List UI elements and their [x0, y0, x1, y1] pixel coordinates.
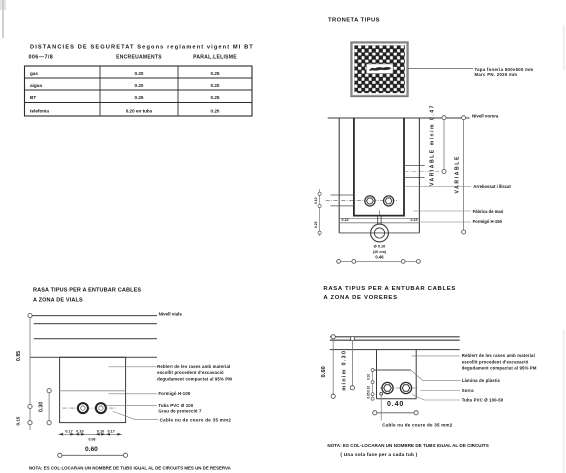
- svg-text:mínim 0.30: mínim 0.30: [342, 350, 348, 391]
- svg-text:ENCREUAMENTS: ENCREUAMENTS: [116, 55, 162, 61]
- svg-text:0.20: 0.20: [211, 83, 220, 88]
- svg-text:0.20: 0.20: [135, 71, 144, 76]
- svg-text:VARIABLE mínim 0.47: VARIABLE mínim 0.47: [430, 104, 436, 186]
- svg-text:Sorra: Sorra: [462, 388, 474, 393]
- svg-text:(10 cm): (10 cm): [373, 249, 387, 254]
- svg-text:Formigó H-150: Formigó H-150: [473, 219, 503, 224]
- svg-text:0.20: 0.20: [211, 108, 220, 113]
- svg-text:0.15: 0.15: [342, 218, 349, 222]
- svg-text:Cable nu de coure de 35 mm2: Cable nu de coure de 35 mm2: [382, 423, 453, 428]
- svg-text:0.40: 0.40: [387, 401, 404, 408]
- svg-text:006—7/8: 006—7/8: [29, 55, 54, 61]
- svg-text:Grau de protecció 7: Grau de protecció 7: [158, 408, 202, 413]
- svg-text:Nivell vorera: Nivell vorera: [472, 113, 499, 118]
- svg-text:0.15: 0.15: [16, 416, 21, 425]
- svg-text:0.25: 0.25: [211, 95, 220, 100]
- svg-text:0.30: 0.30: [39, 402, 45, 412]
- svg-text:RASA TIPUS PER A ENTUBAR CABLE: RASA TIPUS PER A ENTUBAR CABLES: [323, 286, 456, 292]
- svg-text:escollit procedent d'excavació: escollit procedent d'excavació: [157, 370, 224, 375]
- svg-text:0.06: 0.06: [89, 438, 96, 442]
- svg-text:Nivell vials: Nivell vials: [159, 311, 183, 316]
- svg-text:0.25: 0.25: [135, 95, 144, 100]
- svg-text:PARAL.LELISME: PARAL.LELISME: [193, 55, 237, 61]
- svg-text:telefonia: telefonia: [30, 108, 49, 113]
- svg-text:0.10: 0.10: [314, 197, 318, 204]
- svg-text:0.10: 0.10: [367, 386, 371, 392]
- svg-text:VARIABLE: VARIABLE: [455, 155, 461, 193]
- svg-text:degudament compactat al 95% PM: degudament compactat al 95% PM: [462, 366, 537, 371]
- svg-text:0.60: 0.60: [85, 446, 98, 453]
- svg-text:Arrebossat i lliscat: Arrebossat i lliscat: [473, 184, 511, 189]
- svg-text:0.60: 0.60: [321, 366, 327, 377]
- svg-text:degudament compactat al 95% PM: degudament compactat al 95% PM: [157, 376, 232, 381]
- svg-text:TRONETA TIPUS: TRONETA TIPUS: [328, 18, 380, 24]
- svg-text:0.17: 0.17: [65, 430, 72, 434]
- svg-text:0.10: 0.10: [76, 430, 83, 434]
- svg-text:BT: BT: [30, 95, 36, 100]
- svg-text:RASA TIPUS PER A ENTUBAR CABLE: RASA TIPUS PER A ENTUBAR CABLES: [33, 288, 141, 294]
- svg-text:gas: gas: [30, 71, 38, 76]
- svg-text:escollit procedent d'excavació: escollit procedent d'excavació: [462, 360, 529, 365]
- svg-text:0.05: 0.05: [367, 392, 371, 398]
- svg-text:aigua: aigua: [30, 83, 42, 88]
- svg-text:Ø 0.10: Ø 0.10: [374, 244, 386, 249]
- svg-text:A ZONA DE VORERES: A ZONA DE VORERES: [323, 295, 397, 301]
- svg-text:0.15: 0.15: [411, 218, 418, 222]
- svg-text:NOTA: ES COL·LOCARAN UN NOMBRE: NOTA: ES COL·LOCARAN UN NOMBRE DE TUBS I…: [327, 443, 488, 448]
- svg-text:Fàbrica de maó: Fàbrica de maó: [473, 209, 504, 214]
- svg-text:0.46: 0.46: [375, 254, 384, 259]
- svg-text:0.20: 0.20: [135, 83, 144, 88]
- svg-text:0.25: 0.25: [211, 71, 220, 76]
- svg-text:Tubs PVC Ø 100-50: Tubs PVC Ø 100-50: [462, 397, 504, 402]
- svg-text:Tubs PVC Ø 100: Tubs PVC Ø 100: [158, 403, 193, 408]
- svg-text:0.17: 0.17: [108, 430, 115, 434]
- svg-text:0.10: 0.10: [367, 374, 371, 380]
- svg-text:( Una sola fase per a cada tub: ( Una sola fase per a cada tub ): [340, 452, 417, 458]
- svg-text:Formigó H-100: Formigó H-100: [158, 391, 190, 396]
- svg-text:Reblert de les rases amb mater: Reblert de les rases amb material: [462, 353, 535, 358]
- svg-text:Làmina de plàstic: Làmina de plàstic: [462, 378, 501, 383]
- svg-text:0.85: 0.85: [16, 351, 22, 361]
- svg-text:0.10: 0.10: [97, 430, 104, 434]
- svg-text:DISTANCIES DE SEGURETAT Segons: DISTANCIES DE SEGURETAT Segons reglament…: [30, 44, 254, 50]
- svg-text:NOTA: ES COL·LOCARAN UN NOMBRE: NOTA: ES COL·LOCARAN UN NOMBRE DE TUBS I…: [29, 466, 232, 471]
- svg-text:A ZONA DE VIALS: A ZONA DE VIALS: [33, 298, 83, 304]
- svg-text:Marc PN. 2020 mm: Marc PN. 2020 mm: [475, 72, 518, 77]
- svg-text:Cable nu de coure de 35 mm2: Cable nu de coure de 35 mm2: [160, 418, 232, 423]
- svg-text:0.25: 0.25: [314, 221, 318, 228]
- svg-text:Reblert de les rases amb mater: Reblert de les rases amb material: [157, 364, 230, 369]
- svg-text:0.20 en tubs: 0.20 en tubs: [126, 108, 153, 113]
